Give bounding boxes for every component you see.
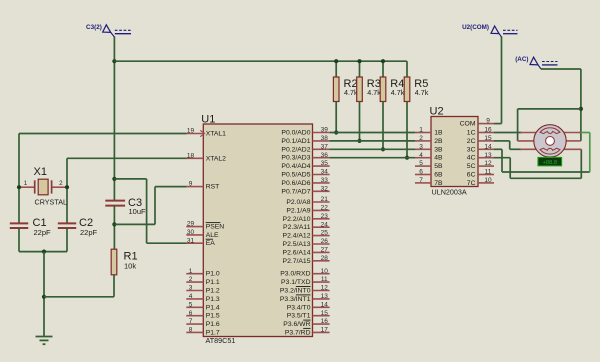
svg-text:P1.1: P1.1	[206, 279, 220, 286]
svg-text:15: 15	[321, 310, 329, 317]
svg-text:P0.6/AD6: P0.6/AD6	[281, 180, 310, 187]
svg-text:16: 16	[484, 127, 492, 134]
svg-text:1: 1	[189, 268, 193, 275]
svg-text:P0.7/AD7: P0.7/AD7	[281, 188, 310, 195]
svg-text:22: 22	[321, 205, 329, 212]
svg-text:7: 7	[189, 318, 193, 325]
svg-text:P3.5/T1: P3.5/T1	[287, 313, 311, 320]
svg-text:1: 1	[419, 127, 423, 134]
svg-text:P2.6/A14: P2.6/A14	[283, 249, 311, 256]
svg-text:1C: 1C	[467, 130, 476, 137]
svg-text:9: 9	[189, 181, 193, 188]
svg-text:4C: 4C	[467, 155, 476, 162]
svg-text:2: 2	[419, 135, 423, 142]
svg-text:U2(COM): U2(COM)	[462, 24, 489, 31]
svg-text:34: 34	[321, 169, 329, 176]
svg-text:P3.6/WR: P3.6/WR	[283, 321, 310, 328]
svg-text:17: 17	[321, 327, 329, 334]
svg-text:10: 10	[321, 268, 329, 275]
svg-text:24: 24	[321, 221, 329, 228]
svg-text:14: 14	[484, 143, 492, 150]
svg-text:30: 30	[187, 229, 195, 236]
svg-text:P2.0/A8: P2.0/A8	[286, 199, 310, 206]
svg-text:(AC): (AC)	[515, 56, 528, 63]
svg-text:13: 13	[321, 293, 329, 300]
svg-text:5B: 5B	[434, 163, 443, 170]
svg-text:P1.4: P1.4	[206, 304, 220, 311]
svg-text:P3.7/RD: P3.7/RD	[285, 329, 311, 336]
svg-text:21: 21	[321, 196, 329, 203]
svg-text:11: 11	[485, 169, 492, 176]
svg-text:PSEN: PSEN	[206, 224, 225, 231]
svg-text:P1.7: P1.7	[206, 329, 220, 336]
svg-text:2: 2	[59, 180, 63, 187]
svg-text:P2.2/A10: P2.2/A10	[283, 216, 311, 223]
svg-text:15: 15	[484, 135, 492, 142]
svg-text:ULN2003A: ULN2003A	[432, 188, 467, 197]
svg-text:22pF: 22pF	[34, 228, 52, 237]
svg-text:13: 13	[484, 152, 492, 159]
svg-text:12: 12	[321, 285, 329, 292]
svg-text:P2.3/A11: P2.3/A11	[283, 224, 311, 231]
svg-text:10uF: 10uF	[129, 207, 147, 216]
svg-text:P0.4/AD4: P0.4/AD4	[281, 163, 310, 170]
svg-text:26: 26	[321, 238, 329, 245]
svg-text:U2: U2	[430, 105, 444, 117]
svg-text:P3.0/RXD: P3.0/RXD	[280, 271, 310, 278]
svg-text:4.7k: 4.7k	[415, 88, 429, 97]
svg-text:12: 12	[484, 160, 492, 167]
svg-text:P2.4/A12: P2.4/A12	[283, 233, 311, 240]
svg-text:4.7k: 4.7k	[367, 88, 381, 97]
svg-text:38: 38	[321, 135, 329, 142]
svg-text:29: 29	[187, 221, 195, 228]
svg-text:32: 32	[321, 185, 329, 192]
svg-text:1B: 1B	[434, 130, 443, 137]
svg-text:5C: 5C	[467, 163, 476, 170]
svg-text:4: 4	[419, 152, 423, 159]
svg-text:2C: 2C	[467, 138, 476, 145]
svg-text:36: 36	[321, 152, 329, 159]
svg-text:RST: RST	[206, 184, 220, 191]
svg-text:14: 14	[321, 301, 329, 308]
svg-text:6: 6	[189, 310, 193, 317]
svg-text:3: 3	[189, 285, 193, 292]
svg-text:3: 3	[419, 143, 423, 150]
svg-text:U1: U1	[201, 113, 215, 125]
svg-text:8: 8	[189, 327, 193, 334]
svg-text:COM: COM	[460, 121, 476, 128]
svg-text:10: 10	[484, 177, 492, 184]
svg-text:5: 5	[419, 160, 423, 167]
svg-text:P3.2/INT0: P3.2/INT0	[280, 288, 311, 295]
svg-text:+88.8: +88.8	[542, 160, 557, 166]
svg-text:P0.0/AD0: P0.0/AD0	[281, 130, 310, 137]
svg-text:ALE: ALE	[206, 232, 219, 239]
svg-text:P3.1/TXD: P3.1/TXD	[281, 279, 311, 286]
svg-text:XTAL2: XTAL2	[206, 155, 226, 162]
svg-text:4B: 4B	[434, 155, 443, 162]
svg-text:AT89C51: AT89C51	[206, 336, 236, 345]
svg-text:P2.1/A9: P2.1/A9	[286, 207, 310, 214]
svg-text:P3.4/T0: P3.4/T0	[287, 304, 311, 311]
svg-text:P0.3/AD3: P0.3/AD3	[281, 155, 310, 162]
svg-text:2B: 2B	[434, 138, 443, 145]
svg-text:4: 4	[189, 293, 193, 300]
svg-text:18: 18	[187, 152, 195, 159]
svg-text:2: 2	[189, 276, 193, 283]
svg-text:19: 19	[187, 128, 195, 135]
svg-text:39: 39	[321, 127, 329, 134]
svg-text:P1.5: P1.5	[206, 313, 220, 320]
svg-text:11: 11	[321, 276, 328, 283]
svg-text:35: 35	[321, 160, 329, 167]
svg-text:P2.5/A13: P2.5/A13	[283, 241, 311, 248]
svg-text:P2.7/A15: P2.7/A15	[283, 258, 311, 265]
svg-text:5: 5	[189, 301, 193, 308]
svg-text:P1.6: P1.6	[206, 321, 220, 328]
svg-text:3B: 3B	[434, 146, 443, 153]
svg-text:22pF: 22pF	[80, 228, 98, 237]
svg-text:31: 31	[187, 237, 195, 244]
svg-text:7B: 7B	[434, 180, 443, 187]
svg-text:P0.2/AD2: P0.2/AD2	[281, 146, 310, 153]
svg-text:XTAL1: XTAL1	[206, 131, 226, 138]
svg-text:16: 16	[321, 318, 329, 325]
svg-text:33: 33	[321, 177, 329, 184]
svg-text:CRYSTAL: CRYSTAL	[35, 198, 68, 207]
svg-text:37: 37	[321, 143, 329, 150]
svg-text:6C: 6C	[467, 172, 476, 179]
svg-text:7: 7	[419, 177, 423, 184]
svg-text:P1.0: P1.0	[206, 271, 220, 278]
svg-text:25: 25	[321, 230, 329, 237]
svg-text:6B: 6B	[434, 172, 443, 179]
svg-text:P0.5/AD5: P0.5/AD5	[281, 172, 310, 179]
svg-text:P3.3/INT1: P3.3/INT1	[280, 296, 311, 303]
svg-text:EA: EA	[206, 240, 216, 247]
svg-text:6: 6	[419, 169, 423, 176]
svg-text:P0.1/AD1: P0.1/AD1	[281, 138, 310, 145]
svg-text:23: 23	[321, 213, 329, 220]
svg-text:C3(2): C3(2)	[86, 24, 102, 31]
svg-text:10k: 10k	[124, 262, 136, 271]
svg-text:X1: X1	[34, 166, 47, 178]
svg-text:7C: 7C	[467, 180, 476, 187]
svg-text:9: 9	[486, 118, 490, 125]
svg-text:4.7k: 4.7k	[391, 88, 405, 97]
svg-text:4.7k: 4.7k	[344, 88, 358, 97]
svg-text:28: 28	[321, 255, 329, 262]
svg-text:3C: 3C	[467, 146, 476, 153]
svg-text:P1.2: P1.2	[206, 288, 220, 295]
svg-text:P1.3: P1.3	[206, 296, 220, 303]
svg-text:27: 27	[321, 247, 329, 254]
svg-text:1: 1	[24, 180, 28, 187]
